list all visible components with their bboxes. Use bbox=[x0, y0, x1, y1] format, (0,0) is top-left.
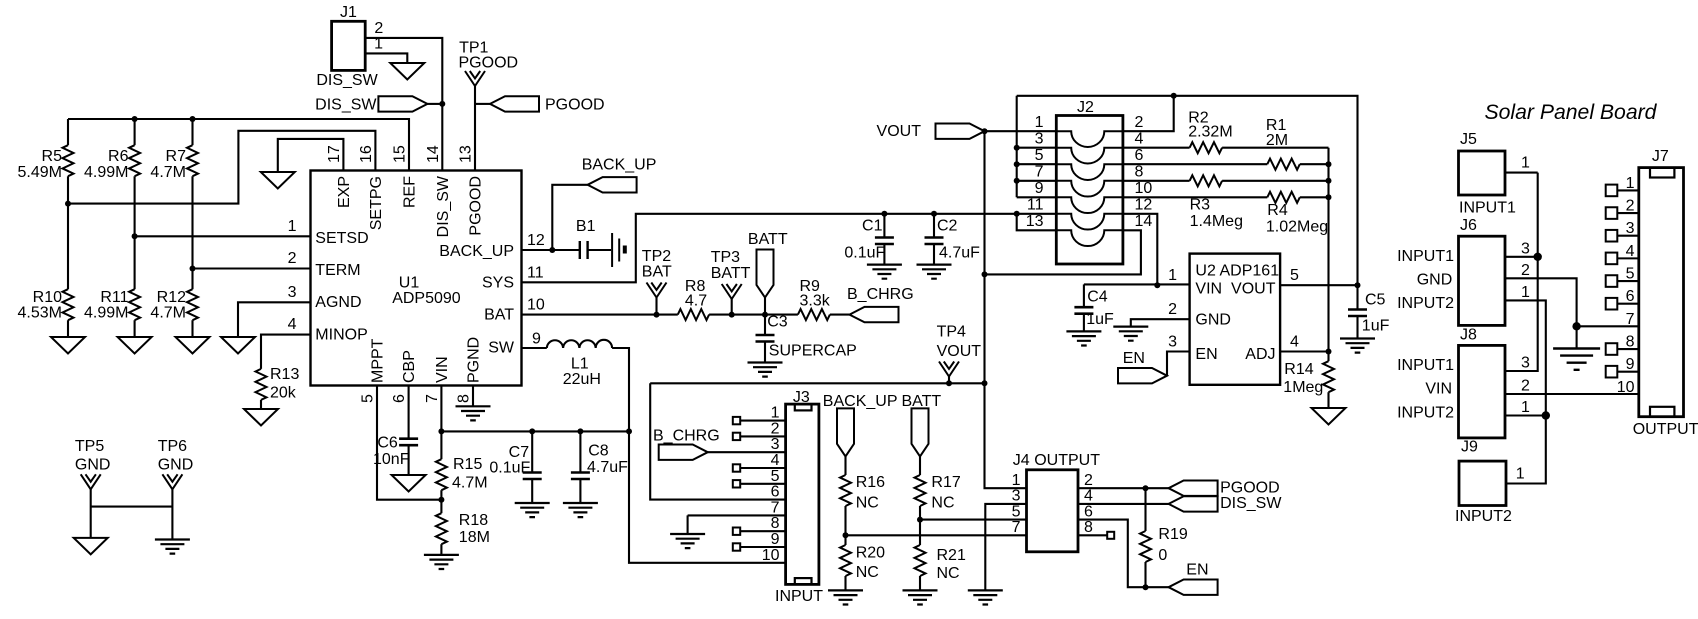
svg-text:12: 12 bbox=[527, 232, 545, 249]
ground solar bbox=[1553, 349, 1600, 370]
svg-text:11: 11 bbox=[1027, 197, 1044, 214]
junction J2 pin7 bbox=[1014, 178, 1020, 184]
junction J6 pin3 bbox=[1534, 253, 1542, 261]
wire TP4 VOUT net bbox=[650, 382, 984, 384]
resistor R15 bbox=[436, 431, 488, 513]
ground AGND bbox=[221, 337, 255, 354]
svg-text:NC: NC bbox=[856, 495, 879, 512]
wire ADJ ladder vertical bbox=[1327, 148, 1329, 352]
wire J7 pin 4 pad bbox=[1606, 253, 1639, 265]
svg-text:2: 2 bbox=[1084, 472, 1093, 489]
svg-text:INPUT1: INPUT1 bbox=[1397, 357, 1454, 374]
junction C2 bbox=[931, 211, 937, 217]
svg-text:11: 11 bbox=[527, 264, 544, 281]
svg-text:1.4Meg: 1.4Meg bbox=[1190, 213, 1243, 230]
svg-text:4.7: 4.7 bbox=[685, 293, 707, 310]
test point TP4 bbox=[937, 324, 982, 384]
svg-text:SW: SW bbox=[488, 340, 515, 357]
flag BATT bbox=[748, 231, 788, 314]
test point TP6 bbox=[158, 438, 194, 540]
svg-text:BAT: BAT bbox=[642, 264, 672, 281]
junction VIN stub bbox=[438, 428, 444, 434]
resistor R19 bbox=[1140, 488, 1188, 587]
svg-text:2: 2 bbox=[1168, 301, 1177, 318]
svg-text:17: 17 bbox=[326, 145, 343, 163]
svg-text:U1: U1 bbox=[399, 275, 420, 292]
svg-text:10nF: 10nF bbox=[373, 451, 410, 468]
svg-text:PGND: PGND bbox=[466, 337, 483, 383]
svg-text:INPUT2: INPUT2 bbox=[1455, 508, 1512, 525]
svg-text:1: 1 bbox=[1035, 114, 1044, 131]
ground R21 bbox=[903, 590, 938, 604]
junction C7 bbox=[529, 428, 535, 434]
svg-text:NC: NC bbox=[931, 495, 954, 512]
svg-text:C3: C3 bbox=[767, 314, 788, 331]
resistor R13 bbox=[256, 366, 300, 409]
ground C8 bbox=[563, 503, 598, 517]
svg-text:VIN: VIN bbox=[1425, 381, 1452, 398]
svg-text:6: 6 bbox=[1084, 503, 1093, 520]
svg-text:R12: R12 bbox=[157, 289, 186, 306]
wire J2 pin6 row bbox=[1123, 163, 1329, 165]
svg-text:INPUT2: INPUT2 bbox=[1397, 295, 1454, 312]
svg-text:PGOOD: PGOOD bbox=[468, 176, 485, 236]
svg-text:1: 1 bbox=[1521, 399, 1530, 416]
svg-text:R5: R5 bbox=[42, 148, 63, 165]
svg-text:13: 13 bbox=[1026, 213, 1044, 230]
wire J4 pin4 DIS_SW bbox=[1078, 503, 1169, 505]
ground EXP bbox=[261, 172, 295, 189]
svg-text:14: 14 bbox=[1135, 213, 1153, 230]
flag BACK_UP bbox=[582, 156, 657, 192]
svg-text:PGOOD: PGOOD bbox=[459, 54, 519, 71]
junction J2 pin12 VIN bbox=[1154, 282, 1160, 288]
junction R6 SETSD bbox=[132, 233, 138, 239]
battery B1 bbox=[576, 218, 625, 267]
svg-text:SYS: SYS bbox=[482, 275, 514, 292]
svg-text:0.1uF: 0.1uF bbox=[489, 460, 530, 477]
svg-text:4.99M: 4.99M bbox=[84, 164, 128, 181]
wire EXP hook bbox=[278, 139, 344, 172]
wire J3 pin7 ground bbox=[688, 515, 786, 534]
ground R20 bbox=[828, 590, 863, 604]
ground U2 bbox=[1113, 327, 1148, 341]
resistor R21 bbox=[915, 520, 966, 591]
wire J6 pin3 net bbox=[1505, 173, 1538, 371]
svg-text:3: 3 bbox=[288, 284, 297, 301]
svg-text:R6: R6 bbox=[108, 148, 129, 165]
svg-text:NC: NC bbox=[937, 565, 960, 582]
svg-text:CBP: CBP bbox=[401, 350, 418, 383]
wire J1 pin1 to ground bbox=[365, 53, 407, 63]
capacitor C6 bbox=[373, 386, 418, 476]
svg-text:Solar Panel Board: Solar Panel Board bbox=[1485, 101, 1658, 124]
svg-text:R10: R10 bbox=[33, 289, 62, 306]
wire J2 pin2 net bbox=[1123, 96, 1174, 131]
wire J2 pin5 stub bbox=[1017, 163, 1057, 165]
wire J2 pin12 net bbox=[1123, 214, 1157, 285]
svg-text:6: 6 bbox=[1135, 147, 1144, 164]
svg-text:PGOOD: PGOOD bbox=[1220, 479, 1280, 496]
wire J7 pin 6 pad bbox=[1606, 298, 1639, 310]
svg-text:2: 2 bbox=[771, 420, 780, 437]
capacitor C2 bbox=[925, 214, 981, 265]
flag BATT input bbox=[902, 393, 942, 475]
flag PGOOD output bbox=[1169, 479, 1280, 496]
svg-text:3: 3 bbox=[1168, 334, 1177, 351]
wire J4 pin6 EN bbox=[1078, 520, 1169, 588]
svg-text:ADJ: ADJ bbox=[1245, 346, 1275, 363]
wire J3 pin 9 pad bbox=[733, 543, 786, 550]
resistor R5 bbox=[18, 119, 74, 289]
junction MPPT R15 R18 bbox=[438, 497, 444, 503]
svg-text:0.1uF: 0.1uF bbox=[844, 245, 885, 262]
connector J2 bbox=[1056, 99, 1123, 264]
svg-text:5: 5 bbox=[1290, 267, 1299, 284]
svg-text:TP3: TP3 bbox=[711, 249, 740, 266]
wire VIN pin7 stub bbox=[440, 386, 442, 432]
svg-text:INPUT1: INPUT1 bbox=[1459, 200, 1516, 217]
svg-text:5: 5 bbox=[771, 468, 780, 485]
svg-text:EXP: EXP bbox=[336, 176, 353, 208]
flag EN output bbox=[1169, 561, 1218, 595]
wire top net R5/R6/R7 to REF bbox=[68, 119, 409, 171]
wire J2 left bus bbox=[1016, 96, 1018, 198]
svg-text:4.53M: 4.53M bbox=[18, 305, 62, 322]
svg-text:1: 1 bbox=[288, 218, 297, 235]
svg-text:3: 3 bbox=[1035, 131, 1044, 148]
junction J2 pin11 bbox=[1014, 211, 1020, 217]
svg-text:1: 1 bbox=[1012, 472, 1021, 489]
svg-text:C2: C2 bbox=[937, 218, 958, 235]
svg-text:1: 1 bbox=[1516, 466, 1525, 483]
wire J2 pin10 row bbox=[1123, 196, 1329, 198]
svg-text:DIS_SW: DIS_SW bbox=[315, 97, 377, 114]
ground C2 bbox=[917, 265, 952, 279]
resistor R20 bbox=[840, 535, 885, 590]
resistor R8 bbox=[678, 278, 709, 320]
svg-text:DIS_SW: DIS_SW bbox=[1220, 495, 1282, 512]
junction R7 TERM bbox=[190, 266, 196, 272]
junction J2 pin3 bbox=[1014, 145, 1020, 151]
svg-text:9: 9 bbox=[532, 331, 541, 348]
wire J4 pin2 PGOOD bbox=[1078, 487, 1169, 489]
wire J8 pin2 VIN bbox=[1505, 393, 1639, 395]
svg-text:TERM: TERM bbox=[315, 262, 360, 279]
test point TP5 bbox=[75, 438, 111, 538]
junction solar ground bbox=[1572, 322, 1580, 330]
wire VOUT U2 bbox=[1280, 284, 1357, 286]
wire J2 pin3 stub bbox=[1017, 147, 1057, 149]
svg-text:1: 1 bbox=[1521, 284, 1530, 301]
svg-text:3: 3 bbox=[1521, 355, 1530, 372]
wire EN U2 bbox=[1167, 352, 1190, 376]
svg-text:R4: R4 bbox=[1267, 202, 1288, 219]
svg-text:INPUT1: INPUT1 bbox=[1397, 248, 1454, 265]
resistor R9 bbox=[798, 278, 831, 320]
wire VIN node horizontal bbox=[441, 430, 629, 432]
flag PGOOD bbox=[475, 96, 605, 113]
svg-text:VOUT: VOUT bbox=[937, 343, 982, 360]
svg-text:J6: J6 bbox=[1460, 217, 1477, 234]
connector J3 bbox=[775, 389, 823, 605]
resistor R11 bbox=[84, 289, 140, 337]
svg-text:2: 2 bbox=[288, 250, 297, 267]
test point TP3 bbox=[711, 249, 751, 315]
svg-text:6: 6 bbox=[391, 394, 408, 403]
svg-text:2: 2 bbox=[1521, 377, 1530, 394]
svg-text:BACK_UP: BACK_UP bbox=[823, 393, 898, 410]
svg-text:4: 4 bbox=[1290, 334, 1299, 351]
svg-text:OUTPUT: OUTPUT bbox=[1034, 452, 1100, 469]
svg-text:R11: R11 bbox=[100, 289, 128, 306]
wire J3 pin 8 pad bbox=[733, 528, 786, 535]
svg-text:BACK_UP: BACK_UP bbox=[439, 243, 514, 260]
junction VIN node bbox=[626, 428, 632, 434]
svg-text:8: 8 bbox=[771, 515, 780, 532]
wire J5 pin1 bbox=[1505, 172, 1538, 174]
svg-text:BATT: BATT bbox=[902, 393, 942, 410]
junction R16 R20 bbox=[843, 532, 849, 538]
flag BACK_UP batt bbox=[823, 393, 898, 475]
svg-text:BAT: BAT bbox=[484, 307, 514, 324]
svg-text:BACK_UP: BACK_UP bbox=[582, 156, 657, 173]
capacitor C4 bbox=[1074, 284, 1114, 331]
capacitor C8 bbox=[571, 431, 628, 503]
wire J2 pin14 net bbox=[985, 230, 1141, 274]
wire L1 to VIN node bbox=[612, 348, 786, 563]
flag VOUT bbox=[877, 123, 985, 140]
svg-text:BATT: BATT bbox=[748, 231, 788, 248]
svg-text:4: 4 bbox=[288, 316, 297, 333]
connector J4 bbox=[1013, 452, 1100, 552]
connector J6 bbox=[1397, 217, 1505, 325]
svg-text:8: 8 bbox=[1084, 519, 1093, 536]
junction TP2 bbox=[654, 312, 660, 318]
resistor R6 bbox=[84, 119, 140, 289]
svg-text:3: 3 bbox=[1012, 488, 1021, 505]
wire SETSD pin1 bbox=[135, 235, 311, 237]
svg-text:14: 14 bbox=[425, 145, 442, 163]
junction DIS_SW bbox=[439, 101, 445, 107]
svg-text:4.99M: 4.99M bbox=[84, 305, 128, 322]
junction R5 wire3 bbox=[65, 201, 71, 207]
svg-text:ADP5090: ADP5090 bbox=[392, 290, 461, 307]
wire J8 pin1 bbox=[1505, 414, 1546, 416]
svg-text:2: 2 bbox=[1135, 114, 1144, 131]
resistor R1 bbox=[1266, 117, 1300, 170]
svg-text:REF: REF bbox=[402, 176, 419, 208]
flag B_CHRG bbox=[847, 286, 914, 322]
junction R6 top bbox=[132, 116, 138, 122]
svg-text:3.3k: 3.3k bbox=[800, 293, 831, 310]
wire MPPT pin5 bbox=[377, 386, 441, 500]
svg-text:INPUT2: INPUT2 bbox=[1397, 404, 1454, 421]
svg-text:EN: EN bbox=[1195, 346, 1217, 363]
svg-text:4.7uF: 4.7uF bbox=[939, 245, 980, 262]
wire BAT net bbox=[522, 314, 850, 316]
wire J4 pin8 pad bbox=[1078, 532, 1114, 539]
svg-text:TP6: TP6 bbox=[158, 438, 187, 455]
svg-text:1uF: 1uF bbox=[1362, 318, 1390, 335]
junction R7 top bbox=[190, 116, 196, 122]
ground TP6 bbox=[155, 540, 190, 554]
svg-text:3: 3 bbox=[1521, 240, 1530, 257]
junction ADJ R14 bbox=[1326, 349, 1332, 355]
svg-text:OUTPUT: OUTPUT bbox=[1633, 421, 1698, 438]
svg-text:DIS_SW: DIS_SW bbox=[316, 72, 378, 89]
junction R1 right bbox=[1326, 161, 1332, 167]
ground TP5 bbox=[74, 538, 108, 555]
junction VOUT flag bbox=[982, 128, 988, 134]
svg-text:0: 0 bbox=[1158, 547, 1167, 564]
svg-text:4.7M: 4.7M bbox=[452, 474, 488, 491]
ground C3 bbox=[748, 363, 783, 377]
junction BACK_UP bbox=[549, 247, 555, 253]
svg-text:7: 7 bbox=[1012, 519, 1021, 536]
ground J1 bbox=[390, 63, 424, 80]
svg-text:4: 4 bbox=[1084, 488, 1093, 505]
wire TP5 TP6 bbox=[91, 506, 173, 508]
ground C7 bbox=[515, 503, 550, 517]
junction R19 top bbox=[1143, 485, 1149, 491]
wire J2 pin8 row bbox=[1123, 180, 1329, 182]
flag DIS_SW bbox=[315, 96, 442, 113]
wire BACK_UP flag riser bbox=[552, 185, 587, 250]
svg-text:15: 15 bbox=[392, 145, 409, 163]
svg-text:ADP161: ADP161 bbox=[1220, 263, 1280, 280]
junction J2 pin5 bbox=[1014, 161, 1020, 167]
svg-text:7: 7 bbox=[1035, 164, 1044, 181]
ground J3 pin7 bbox=[670, 534, 705, 548]
wire J7 pin 8 pad bbox=[1606, 343, 1639, 355]
connector J1 bbox=[316, 4, 378, 89]
svg-text:TP4: TP4 bbox=[937, 324, 966, 341]
svg-text:EN: EN bbox=[1186, 561, 1208, 578]
svg-text:R13: R13 bbox=[270, 366, 299, 383]
svg-text:VOUT: VOUT bbox=[877, 123, 922, 140]
svg-text:MPPT: MPPT bbox=[370, 338, 387, 383]
wire J4 pin3 ground bbox=[985, 504, 1026, 591]
ground PGND pin8 bbox=[472, 386, 474, 407]
svg-text:VOUT: VOUT bbox=[1231, 280, 1276, 297]
resistor R14 bbox=[1283, 352, 1334, 409]
connector J9 bbox=[1455, 438, 1512, 525]
connector J5 bbox=[1459, 131, 1517, 217]
svg-text:1: 1 bbox=[1168, 267, 1177, 284]
svg-text:SETPG: SETPG bbox=[368, 176, 385, 230]
op-amp U2 ADP161 body bbox=[1190, 254, 1281, 385]
svg-text:R19: R19 bbox=[1158, 526, 1187, 543]
node SETPG/wire3 net bbox=[68, 131, 375, 204]
resistor R4 bbox=[1266, 192, 1328, 236]
svg-text:4.7M: 4.7M bbox=[150, 305, 186, 322]
wire J2 pin7 stub bbox=[1017, 180, 1057, 182]
svg-text:J1: J1 bbox=[340, 4, 357, 21]
ground R13 bbox=[244, 409, 278, 426]
wire J7 pin7 ground bbox=[1577, 325, 1639, 327]
svg-text:4: 4 bbox=[771, 452, 780, 469]
junction R4 right bbox=[1326, 194, 1332, 200]
ground C1 bbox=[867, 265, 902, 279]
wire AGND pin3 bbox=[238, 302, 311, 337]
svg-text:10: 10 bbox=[1135, 180, 1153, 197]
svg-text:5: 5 bbox=[1012, 503, 1021, 520]
wire DIS_SW net bbox=[365, 38, 442, 171]
svg-text:1.02Meg: 1.02Meg bbox=[1266, 218, 1328, 235]
connector J8 bbox=[1397, 326, 1505, 438]
capacitor C5 bbox=[1348, 285, 1390, 338]
wire J2 pin9 stub bbox=[1017, 196, 1057, 198]
svg-text:C1: C1 bbox=[862, 218, 883, 235]
wire J2 pin4 row bbox=[1123, 147, 1329, 149]
junction TP4 bbox=[946, 380, 952, 386]
svg-text:PGOOD: PGOOD bbox=[545, 97, 605, 114]
svg-text:9: 9 bbox=[1035, 180, 1044, 197]
capacitor C7 bbox=[489, 431, 541, 503]
svg-text:B_CHRG: B_CHRG bbox=[847, 286, 914, 303]
svg-text:J2: J2 bbox=[1077, 99, 1094, 116]
junction C5 bbox=[1355, 282, 1361, 288]
svg-text:VIN: VIN bbox=[434, 356, 451, 383]
svg-text:R18: R18 bbox=[459, 512, 488, 529]
wire TERM pin2 bbox=[193, 267, 311, 269]
svg-text:GND: GND bbox=[158, 457, 194, 474]
wire SYS net bbox=[522, 214, 1057, 282]
svg-text:J7: J7 bbox=[1652, 148, 1669, 165]
ground R18 bbox=[424, 555, 459, 569]
svg-text:J5: J5 bbox=[1460, 131, 1477, 148]
svg-text:8: 8 bbox=[1135, 164, 1144, 181]
svg-text:7: 7 bbox=[771, 499, 780, 516]
inductor L1 bbox=[547, 340, 612, 388]
svg-text:R17: R17 bbox=[931, 474, 960, 491]
svg-text:8: 8 bbox=[456, 394, 473, 403]
junction VOUT J2 pin14 branch bbox=[982, 271, 988, 277]
ground J4 pin3 bbox=[968, 590, 1003, 604]
svg-text:16: 16 bbox=[358, 145, 375, 163]
svg-text:12: 12 bbox=[1135, 197, 1153, 214]
wire J4 pin7 bbox=[846, 534, 1027, 536]
svg-text:J4: J4 bbox=[1013, 452, 1030, 469]
junction C3 bbox=[762, 312, 768, 318]
ground C6 bbox=[392, 475, 426, 492]
svg-text:2: 2 bbox=[1521, 262, 1530, 279]
resistor R7 bbox=[150, 119, 198, 289]
svg-text:C7: C7 bbox=[509, 444, 530, 461]
svg-text:9: 9 bbox=[771, 531, 780, 548]
svg-text:4: 4 bbox=[1135, 131, 1144, 148]
svg-text:R21: R21 bbox=[937, 547, 966, 564]
junction C1 bbox=[881, 211, 887, 217]
resistor R10 bbox=[18, 289, 74, 337]
svg-text:TP5: TP5 bbox=[75, 438, 104, 455]
svg-text:R20: R20 bbox=[856, 545, 885, 562]
svg-text:U2: U2 bbox=[1195, 263, 1216, 280]
svg-text:2: 2 bbox=[374, 20, 383, 37]
svg-text:1: 1 bbox=[1521, 155, 1530, 172]
svg-text:1: 1 bbox=[771, 405, 780, 422]
svg-text:B_CHRG: B_CHRG bbox=[653, 427, 720, 444]
svg-text:10: 10 bbox=[762, 547, 780, 564]
svg-text:4.7uF: 4.7uF bbox=[587, 459, 628, 476]
svg-text:B1: B1 bbox=[576, 218, 596, 235]
flag B_CHRG input bbox=[653, 427, 786, 460]
svg-text:GND: GND bbox=[75, 457, 111, 474]
resistor R17 bbox=[915, 474, 961, 520]
wire BACK_UP pin12 bbox=[522, 249, 580, 251]
junction TP3 bbox=[729, 312, 735, 318]
